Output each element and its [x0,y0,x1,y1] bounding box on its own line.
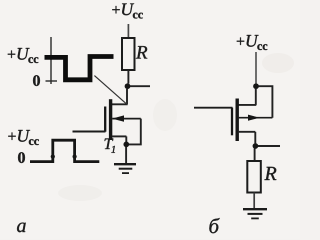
pointer line from output waveform to drain node [94,76,126,105]
wire: output lead going right (circuit b) [258,145,280,147]
node: drain junction (circuit b) [253,83,259,89]
node: source junction (circuit b) [253,143,259,149]
wire: drain node down to transistor drain corner (circuit b) [255,89,257,105]
ground (circuit a) [114,164,136,173]
wire: drain-substrate feedback loop (circuit b) [259,86,273,118]
supply label +Ucc (circuit a, above resistor R) [112,4,143,19]
output waveform axis (circuit a) [46,37,58,84]
label R value (circuit b) [264,167,276,180]
wire: output lead going right (circuit a) [130,85,150,87]
ink dot at input pulse falling edge [73,155,77,159]
label R value (circuit a) [136,46,147,58]
label +Ucc (input waveform high level) [8,130,39,145]
wire: substrate loop from T1 body down to source node [129,119,141,145]
transistor (p-channel MOSFET, circuit b) [194,99,272,144]
node: source junction (circuit a) [123,142,129,148]
ink dot at input pulse rising edge [51,155,55,159]
input waveform trace (positive pulse, circuit a) [30,140,99,161]
wire: source node to ground (circuit a) [125,147,127,164]
supply label +Ucc (circuit b) [237,35,267,50]
label b (figure part b) [209,218,219,233]
wire: resistor R to ground (circuit b) [253,193,255,209]
node: drain/output junction (circuit a) [125,83,131,89]
wire: +Ucc supply down to drain node (circuit b) [255,52,257,84]
transistor T1 (n-channel MOSFET, circuit a) [73,99,141,143]
ground (circuit b) [243,209,267,218]
wire: output node down to T1 drain corner [126,89,128,105]
label 0 (input waveform low level) [18,152,25,163]
resistor R (circuit b) [247,161,260,193]
label a (figure part a) [17,223,26,233]
wire: +Ucc supply to resistor R top (circuit a) [127,24,129,38]
wire: resistor R bottom to output node (circuit a) [127,70,129,84]
resistor R (circuit a) [122,38,135,70]
wire: source node down to resistor R (circuit b) [254,149,256,162]
label +Ucc (output waveform high level) [8,48,39,63]
output waveform trace (inverted pulse, circuit a) [45,57,114,80]
label 0 (output waveform low level) [33,75,40,86]
label T1 (transistor designator) [105,139,116,153]
